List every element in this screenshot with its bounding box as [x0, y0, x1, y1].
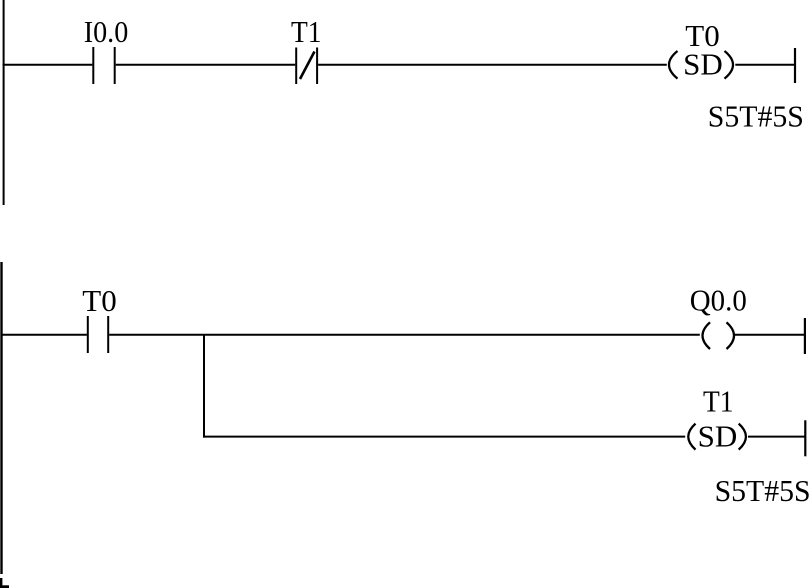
- NC contact T1 bars: [296, 48, 317, 85]
- label T0 (coil, network 1): [685, 18, 719, 53]
- wire rung1: rail to contact I0.0: [3, 64, 93, 66]
- wire rung1: coil T0 to right rail: [735, 64, 795, 66]
- coil T0 left paren: [669, 51, 678, 79]
- coil T0 right paren: [725, 51, 734, 79]
- left power rail (network 1): [3, 0, 5, 205]
- NC contact T1 slash: [300, 52, 315, 80]
- wire rung2: coil Q0.0 to right rail: [735, 334, 805, 336]
- value S5T#5S (timer T1 preset): [715, 473, 811, 508]
- label T1: [291, 14, 322, 49]
- coil T1 left paren: [688, 424, 695, 450]
- contact T0 (NO) bars: [88, 316, 108, 353]
- svg-text:I0.0: I0.0: [84, 14, 129, 49]
- coil T0 SD text: [683, 47, 723, 82]
- svg-text:T0: T0: [82, 283, 116, 318]
- label T1 (coil, network 2): [703, 384, 734, 419]
- svg-text:T1: T1: [291, 14, 322, 49]
- right rail tick (rung 2 upper): [804, 318, 806, 354]
- right rail tick (rung 2 lower): [804, 420, 806, 456]
- scan artifact: bottom-left corner horizontal mark: [0, 585, 9, 588]
- coil T1 right paren: [739, 424, 746, 450]
- coil Q0.0 left paren: [703, 322, 711, 349]
- wire rung2: coil T1 to right rail: [748, 436, 805, 438]
- left power rail (network 2): [0, 262, 2, 574]
- svg-text:S5T#5S: S5T#5S: [708, 99, 804, 134]
- label T0 (contact, network 2): [82, 283, 116, 318]
- right rail tick (network 1): [794, 48, 796, 83]
- svg-text:T1: T1: [703, 384, 734, 419]
- label Q0.0: [690, 283, 747, 318]
- branch junction vertical wire: [203, 335, 205, 438]
- value S5T#5S (timer T0 preset): [708, 99, 804, 134]
- svg-text:SD: SD: [698, 419, 738, 454]
- wire rung2: T0 to coil Q0.0: [109, 334, 700, 336]
- contact I0.0 (NO) bars: [93, 47, 114, 84]
- coil Q0.0 right paren: [727, 322, 735, 349]
- svg-text:T0: T0: [685, 18, 719, 53]
- svg-text:Q0.0: Q0.0: [690, 283, 747, 318]
- wire rung2: rail to contact T0: [1, 334, 87, 336]
- svg-text:S5T#5S: S5T#5S: [715, 473, 811, 508]
- wire rung1: T1 to coil T0: [318, 64, 667, 66]
- coil T1 SD text: [698, 419, 738, 454]
- branch wire to coil T1: [203, 436, 685, 438]
- label I0.0: [84, 14, 129, 49]
- wire rung1: I0.0 to T1: [116, 64, 296, 66]
- scan artifact: bottom-left corner vertical mark: [0, 578, 2, 588]
